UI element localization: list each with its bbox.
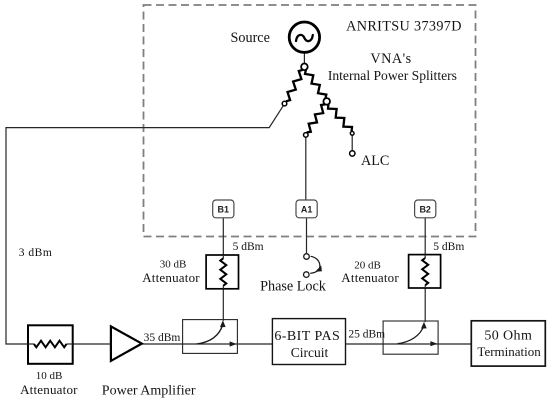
svg-text:Phase Lock: Phase Lock [260,279,327,295]
svg-text:6-BIT PAS: 6-BIT PAS [274,329,340,344]
svg-text:ANRITSU 37397D: ANRITSU 37397D [346,19,462,35]
svg-text:Circuit: Circuit [291,345,329,360]
svg-text:30 dB: 30 dB [160,258,187,270]
svg-text:VNA's: VNA's [370,51,411,67]
svg-text:5 dBm: 5 dBm [233,241,264,253]
svg-text:Attenuator: Attenuator [341,270,399,285]
svg-text:Source: Source [231,30,270,46]
svg-text:Internal Power Splitters: Internal Power Splitters [328,68,457,83]
svg-text:Power Amplifier: Power Amplifier [102,384,196,399]
svg-text:35 dBm: 35 dBm [144,332,181,344]
svg-text:Attenuator: Attenuator [20,382,78,397]
svg-text:Attenuator: Attenuator [142,270,200,285]
svg-text:3 dBm: 3 dBm [19,247,53,259]
svg-text:50 Ohm: 50 Ohm [484,329,532,344]
svg-text:ALC: ALC [361,153,389,169]
svg-text:25 dBm: 25 dBm [348,329,385,341]
svg-text:Termination: Termination [477,344,541,359]
svg-text:10 dB: 10 dB [36,370,63,382]
svg-text:A1: A1 [301,205,313,215]
svg-text:B2: B2 [419,205,431,215]
svg-text:B1: B1 [218,205,230,215]
svg-text:5 dBm: 5 dBm [433,241,464,253]
